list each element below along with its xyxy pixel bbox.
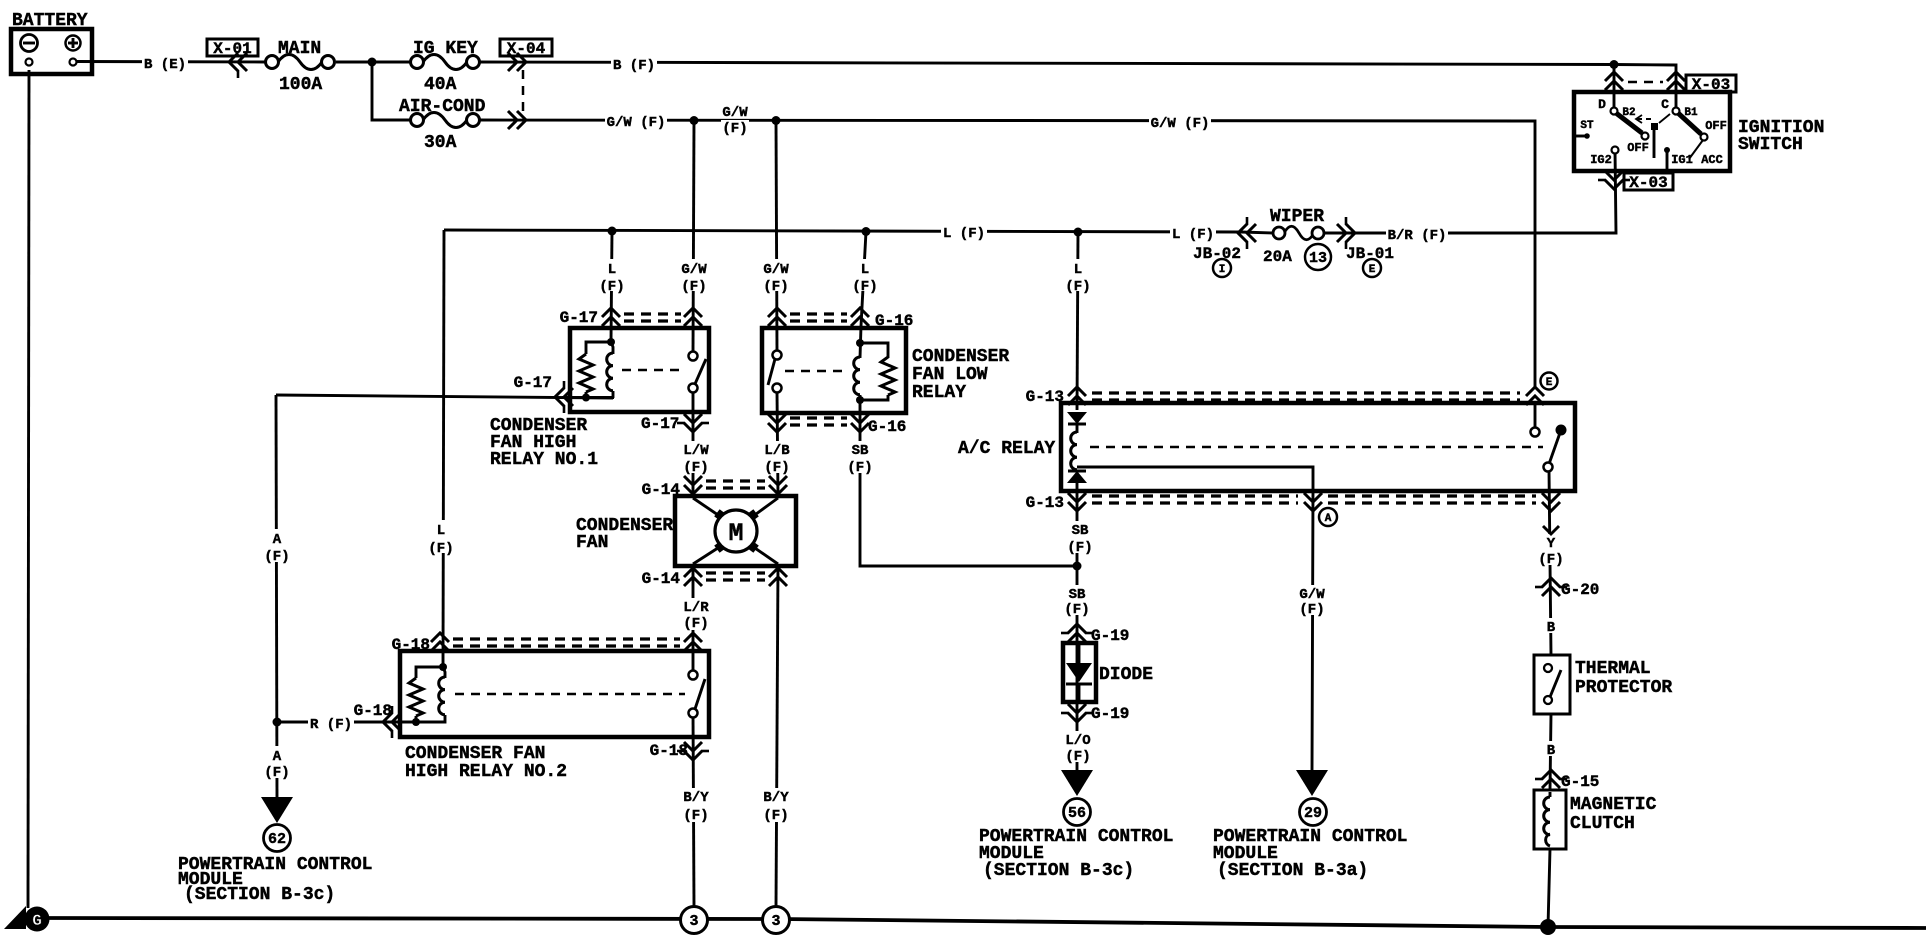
- svg-text:CLUTCH: CLUTCH: [1570, 814, 1635, 834]
- node junction G/W at (694,120): [690, 116, 699, 125]
- wire motor left down to relay2: [692, 566, 695, 675]
- relay CONDENSER FAN LOW RELAY: [762, 308, 1009, 436]
- svg-text:(SECTION B-3c): (SECTION B-3c): [184, 885, 335, 905]
- svg-text:HIGH RELAY NO.2: HIGH RELAY NO.2: [405, 762, 567, 782]
- node junction L at (612,231): [608, 227, 617, 236]
- svg-text:B (F): B (F): [613, 58, 655, 74]
- ground symbol G: [4, 906, 50, 932]
- svg-text:A: A: [1325, 513, 1332, 525]
- wire A/C relay tap to PCM 29: [1077, 467, 1313, 772]
- wire label L (F) col 1078: [1069, 259, 1087, 291]
- svg-text:G-14: G-14: [642, 570, 681, 588]
- svg-text:RELAY: RELAY: [912, 383, 966, 403]
- node circled 56: [1064, 799, 1091, 826]
- Y(F) arrow head: [1543, 526, 1559, 534]
- svg-text:R (F): R (F): [310, 717, 352, 733]
- wire label G/W (F) col 694: [677, 259, 711, 291]
- svg-text:X-03: X-03: [1629, 174, 1667, 192]
- svg-text:DIODE: DIODE: [1099, 665, 1153, 685]
- relay2 coil: [439, 663, 447, 671]
- wire label B (E): [142, 55, 188, 70]
- svg-text:G-18: G-18: [392, 636, 430, 654]
- svg-text:ST: ST: [1580, 120, 1594, 132]
- node junction L at (1078,232): [1074, 228, 1083, 237]
- svg-text:A/C RELAY: A/C RELAY: [958, 439, 1055, 459]
- svg-text:G/W: G/W: [722, 105, 748, 121]
- svg-text:G/W: G/W: [1299, 587, 1325, 603]
- svg-text:L/O: L/O: [1065, 733, 1090, 749]
- connector G-19 top: [1068, 624, 1086, 642]
- svg-text:(F): (F): [683, 808, 708, 824]
- svg-text:(F): (F): [428, 541, 453, 557]
- svg-text:G-13: G-13: [1026, 388, 1064, 406]
- connector G-20: [1542, 578, 1560, 596]
- svg-text:20A: 20A: [1263, 248, 1292, 266]
- wire label L/R (F): [679, 598, 713, 630]
- svg-text:B/Y: B/Y: [683, 790, 709, 806]
- svg-text:G-18: G-18: [650, 742, 688, 760]
- svg-text:L/B: L/B: [764, 443, 790, 459]
- svg-text:L/R: L/R: [683, 600, 709, 616]
- node junction SB at (1077,566): [1073, 562, 1082, 571]
- wire into ignition B2: [1613, 65, 1616, 109]
- svg-text:G-16: G-16: [875, 312, 913, 330]
- connector G-19 bottom: [1068, 704, 1086, 722]
- svg-text:SB: SB: [1069, 587, 1086, 603]
- svg-text:I: I: [1219, 264, 1226, 276]
- wire label L/W (F): [679, 441, 713, 473]
- svg-text:G-17: G-17: [560, 309, 598, 327]
- wire R(F) relay2 coil to A(F): [277, 721, 416, 724]
- wire label G/W (F) left: [605, 113, 667, 128]
- svg-text:M: M: [728, 519, 743, 548]
- wire L down to A/C relay coil: [1077, 232, 1078, 410]
- svg-text:(F): (F): [763, 808, 788, 824]
- wire label L (F) col 866: [856, 259, 874, 291]
- wire label L (F) col 441: [427, 520, 455, 553]
- connector X-01: [207, 39, 258, 78]
- wire L(F) bus horizontal: [444, 230, 1272, 233]
- svg-text:(F): (F): [852, 279, 877, 295]
- svg-text:56: 56: [1068, 805, 1086, 822]
- svg-text:(F): (F): [264, 765, 289, 781]
- thermal protector: [1534, 655, 1672, 714]
- wire label L/O (F): [1061, 731, 1095, 762]
- svg-text:L: L: [608, 262, 616, 278]
- node circled 13: [1305, 244, 1331, 270]
- motor CONDENSER FAN: [576, 476, 796, 588]
- relay1 coil: [607, 338, 615, 346]
- svg-text:(F): (F): [764, 460, 789, 476]
- svg-text:OFF: OFF: [1705, 119, 1727, 133]
- svg-text:G-17: G-17: [641, 415, 679, 433]
- wire ground bus bottom: [46, 918, 1926, 928]
- wire relay1 coil tap to A(F) line: [276, 395, 613, 398]
- wire motor right down to ground circle 3: [776, 566, 778, 906]
- node circled I: [1213, 259, 1231, 277]
- wire label B (F): [611, 56, 657, 71]
- node junction L at (866,231): [862, 227, 871, 236]
- relay A/C RELAY: [958, 373, 1575, 527]
- svg-text:B: B: [1547, 743, 1556, 759]
- magnetic clutch: [1534, 790, 1657, 849]
- svg-text:WIPER: WIPER: [1270, 207, 1324, 227]
- svg-text:RELAY NO.1: RELAY NO.1: [490, 450, 598, 470]
- svg-text:(F): (F): [681, 279, 706, 295]
- connector X-03 bottom: [1605, 171, 1623, 189]
- wire label G/W (F) right: [1149, 114, 1211, 129]
- svg-text:G-20: G-20: [1561, 581, 1599, 599]
- svg-text:PROTECTOR: PROTECTOR: [1575, 678, 1672, 698]
- low relay switch: [773, 351, 782, 360]
- node junction at (277,722): [273, 718, 282, 727]
- svg-text:E: E: [1546, 377, 1553, 389]
- wire A(F) vertical: [276, 395, 277, 800]
- diode DIODE box: [1063, 643, 1153, 702]
- svg-text:B/Y: B/Y: [763, 790, 789, 806]
- wire L(F) vertical to relay no.2: [443, 230, 444, 667]
- wire label L (F) right bus: [1170, 225, 1216, 240]
- wire label B/Y (F) col 776: [759, 788, 793, 822]
- svg-text:E: E: [1369, 264, 1376, 276]
- svg-text:X-03: X-03: [1692, 76, 1730, 94]
- low relay coil: [856, 339, 864, 347]
- svg-text:62: 62: [268, 831, 286, 848]
- svg-text:L: L: [1074, 262, 1082, 278]
- relay2 switch: [689, 671, 698, 680]
- wire L down to low relay coil: [860, 232, 866, 359]
- node junction G/W at (776,120): [772, 116, 781, 125]
- battery: [11, 11, 92, 74]
- svg-text:40A: 40A: [424, 75, 457, 95]
- svg-text:FAN LOW: FAN LOW: [912, 365, 988, 385]
- wire A/C relay coil leg down to diode and PCM 56: [1076, 483, 1079, 772]
- node circled 62: [264, 825, 291, 852]
- svg-text:100A: 100A: [279, 75, 322, 95]
- svg-text:(F): (F): [599, 279, 624, 295]
- wire label L/B (F): [760, 441, 794, 473]
- svg-text:L (F): L (F): [943, 226, 985, 242]
- wire IG KEY fuse to ignition switch B(F): [479, 62, 1676, 108]
- wire label SB (F) lower A/C: [1063, 585, 1091, 615]
- svg-text:OFF: OFF: [1627, 141, 1649, 155]
- svg-text:MAGNETIC: MAGNETIC: [1570, 795, 1657, 815]
- svg-text:IG2: IG2: [1590, 153, 1612, 167]
- wire X-04 connector dashed link: [522, 70, 525, 113]
- wire low relay coil SB down and right to A/C junction: [860, 400, 1077, 566]
- svg-text:(F): (F): [847, 460, 872, 476]
- arrow to PCM 29: [1296, 770, 1328, 796]
- svg-text:A: A: [273, 532, 282, 548]
- wire label B/Y (F) col 694: [679, 788, 713, 822]
- svg-text:B: B: [1547, 620, 1556, 636]
- svg-text:L: L: [861, 262, 869, 278]
- svg-text:Y: Y: [1547, 536, 1556, 552]
- svg-text:C: C: [1661, 97, 1669, 112]
- wire label B/R (F): [1386, 226, 1448, 241]
- wire A/C relay switch down thermal clutch to ground: [1535, 403, 1551, 927]
- wire label A (F) upper: [263, 529, 291, 562]
- wire relay2 switch down to ground circle 3: [693, 713, 694, 906]
- svg-text:G-13: G-13: [1026, 494, 1064, 512]
- wire label Y (F): [1537, 534, 1565, 565]
- svg-text:THERMAL: THERMAL: [1575, 659, 1651, 679]
- svg-text:B1: B1: [1684, 107, 1698, 119]
- svg-text:L/W: L/W: [683, 443, 709, 459]
- svg-text:3: 3: [771, 913, 780, 930]
- svg-text:(F): (F): [1065, 749, 1090, 765]
- svg-text:G-15: G-15: [1561, 773, 1599, 791]
- connector X-03 top: [1605, 72, 1623, 90]
- svg-text:G-19: G-19: [1091, 705, 1129, 723]
- svg-text:SB: SB: [852, 443, 869, 459]
- svg-text:MAIN: MAIN: [278, 39, 321, 59]
- svg-text:(F): (F): [1299, 602, 1324, 618]
- svg-text:FAN: FAN: [576, 533, 608, 553]
- wire label G/W (F) col 776: [759, 259, 793, 291]
- wire label L (F) mid bus: [941, 224, 987, 239]
- svg-text:G-17: G-17: [514, 374, 552, 392]
- wire G/W down to relay1 switch: [693, 120, 694, 352]
- wire L down to relay1 coil: [611, 231, 612, 342]
- svg-text:(SECTION B-3c): (SECTION B-3c): [983, 861, 1134, 881]
- svg-text:ACC: ACC: [1701, 153, 1723, 167]
- connector G-15: [1542, 770, 1560, 788]
- wire label B lower: [1543, 741, 1559, 756]
- connector X-04: [500, 39, 552, 129]
- wire branch to AIR-COND fuse: [372, 62, 412, 120]
- node ground circle 3 left: [681, 907, 708, 934]
- svg-text:X-04: X-04: [507, 40, 546, 58]
- svg-text:30A: 30A: [424, 133, 457, 153]
- svg-text:(SECTION B-3a): (SECTION B-3a): [1217, 861, 1368, 881]
- svg-text:CONDENSER FAN: CONDENSER FAN: [405, 744, 545, 764]
- svg-text:(F): (F): [683, 616, 708, 632]
- svg-text:(F): (F): [763, 279, 788, 295]
- arrow to PCM 62: [261, 797, 293, 823]
- svg-text:G: G: [32, 912, 42, 930]
- wire label SB (F) upper A/C: [1066, 521, 1094, 553]
- wire label A (F) lower: [263, 746, 291, 778]
- node junction ground at (1548,927): [1540, 919, 1556, 935]
- svg-text:(F): (F): [722, 121, 747, 137]
- wire MAIN fuse to junction: [336, 61, 412, 64]
- wire label R (F): [308, 715, 354, 730]
- node junction B at (372,62): [368, 58, 377, 67]
- svg-text:A: A: [273, 749, 282, 765]
- relay CONDENSER FAN HIGH RELAY NO.1: [490, 308, 709, 470]
- node junction at (1614,64.5): [1610, 60, 1619, 69]
- relay1 switch: [689, 352, 698, 361]
- svg-text:G/W (F): G/W (F): [607, 115, 666, 131]
- wire relay1 switch to motor L/W: [692, 392, 695, 496]
- fuse IG KEY 40A: [411, 39, 480, 95]
- svg-text:B (E): B (E): [144, 57, 186, 73]
- node circled 29: [1300, 799, 1327, 826]
- wire label L (F) col 612: [603, 259, 621, 291]
- svg-text:L: L: [437, 523, 445, 539]
- svg-text:IG KEY: IG KEY: [413, 39, 478, 59]
- node ground circle 3 right: [763, 907, 790, 934]
- fuse AIR-COND 30A: [399, 97, 486, 153]
- svg-text:(F): (F): [1067, 540, 1092, 556]
- wire label SB (F) low relay: [846, 441, 874, 473]
- svg-text:CONDENSER: CONDENSER: [912, 347, 1009, 367]
- wire WIPER fuse to ignition IG2: [1324, 150, 1616, 233]
- fuse WIPER 20A with JB labels: [1193, 207, 1394, 277]
- wire G/W(F) horizontal to right vertical: [479, 120, 1535, 389]
- fuse MAIN 100A: [266, 39, 335, 95]
- svg-text:G/W: G/W: [681, 262, 707, 278]
- svg-text:AIR-COND: AIR-COND: [399, 97, 486, 117]
- svg-text:G/W (F): G/W (F): [1151, 116, 1210, 132]
- wire G/W down to low relay switch: [776, 120, 777, 351]
- svg-text:G-18: G-18: [354, 702, 392, 720]
- wire B(E) battery to MAIN fuse: [77, 60, 265, 63]
- svg-text:D: D: [1598, 97, 1606, 112]
- node circled E top: [1541, 373, 1558, 390]
- node circled A: [1319, 508, 1337, 526]
- A/C relay switch: [1531, 428, 1540, 437]
- svg-text:(F): (F): [1064, 602, 1089, 618]
- svg-text:BATTERY: BATTERY: [12, 11, 88, 31]
- svg-text:(F): (F): [683, 460, 708, 476]
- svg-text:(F): (F): [1065, 279, 1090, 295]
- svg-text:G-16: G-16: [868, 418, 906, 436]
- svg-text:IG1: IG1: [1671, 153, 1693, 167]
- svg-text:L (F): L (F): [1172, 227, 1214, 243]
- ignition switch: [1574, 72, 1824, 192]
- A/C relay coil with diodes: [1067, 412, 1087, 424]
- arrow to PCM 56: [1061, 770, 1093, 796]
- svg-text:(F): (F): [1538, 552, 1563, 568]
- node circled E: [1363, 259, 1381, 277]
- wire label B upper: [1543, 618, 1559, 633]
- svg-text:29: 29: [1304, 805, 1322, 822]
- svg-text:SWITCH: SWITCH: [1738, 135, 1803, 155]
- wire battery negative to ground: [28, 70, 29, 908]
- svg-text:SB: SB: [1072, 523, 1089, 539]
- svg-text:3: 3: [689, 913, 698, 930]
- svg-text:13: 13: [1309, 250, 1327, 267]
- wire label G/W (F) col 1312: [1295, 585, 1329, 615]
- wire low relay switch to motor L/B: [777, 392, 778, 496]
- svg-text:B/R (F): B/R (F): [1388, 228, 1447, 244]
- svg-text:(F): (F): [264, 549, 289, 565]
- relay CONDENSER FAN HIGH RELAY NO.2: [354, 633, 709, 782]
- svg-text:G/W: G/W: [763, 262, 789, 278]
